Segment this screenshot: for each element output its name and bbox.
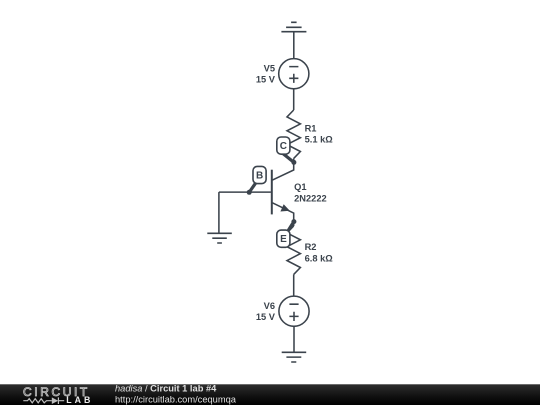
- svg-text:5.1 kΩ: 5.1 kΩ: [305, 135, 334, 145]
- svg-text:C: C: [280, 141, 287, 152]
- svg-text:V6: V6: [264, 301, 275, 311]
- svg-text:R1: R1: [305, 124, 317, 134]
- svg-text:E: E: [280, 234, 287, 245]
- svg-text:15 V: 15 V: [256, 312, 276, 322]
- svg-text:hadisa / Circuit 1 lab #4: hadisa / Circuit 1 lab #4: [115, 383, 217, 393]
- svg-text:http://circuitlab.com/cequmqa: http://circuitlab.com/cequmqa: [115, 394, 237, 404]
- svg-text:6.8 kΩ: 6.8 kΩ: [305, 253, 334, 263]
- svg-text:2N2222: 2N2222: [294, 193, 327, 203]
- svg-text:LAB: LAB: [66, 395, 93, 405]
- svg-text:Q1: Q1: [294, 182, 306, 192]
- svg-text:V5: V5: [264, 64, 275, 74]
- svg-text:15 V: 15 V: [256, 75, 276, 85]
- svg-text:R2: R2: [305, 242, 317, 252]
- svg-text:B: B: [256, 170, 263, 181]
